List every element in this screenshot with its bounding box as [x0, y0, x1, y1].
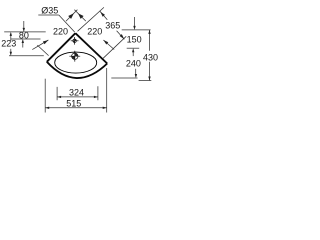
- arrow 515 right: [103, 107, 107, 109]
- svg-text:365: 365: [105, 20, 120, 30]
- basin back right edge: [75, 33, 107, 63]
- dim 240 lower arrow: [135, 69, 137, 77]
- drain symbol: [69, 51, 80, 62]
- dim 430 stem (broken by text): [149, 30, 151, 81]
- dim 80 upper arrow: [23, 21, 25, 30]
- dim line 515: [45, 107, 106, 109]
- ext line T to apex2: [78, 7, 104, 31]
- perp ext tick right: [103, 36, 126, 58]
- right ext line R2: [127, 47, 140, 49]
- left ext line L3: [9, 55, 44, 57]
- svg-text:220: 220: [87, 26, 102, 36]
- arrow 430 top: [148, 30, 150, 34]
- dim 150/240 shared arrow at R2: [132, 50, 134, 56]
- arrow 220L at apex: [68, 13, 74, 19]
- arrow 515 left: [45, 107, 49, 109]
- svg-text:223: 223: [1, 38, 16, 48]
- arrow 220R at apex: [78, 13, 84, 19]
- arrow 365 lower: [120, 34, 125, 39]
- dim 223 lower stem: [10, 49, 12, 54]
- dim 80 lower arrow: [22, 41, 24, 48]
- svg-text:80: 80: [19, 31, 29, 41]
- dim 150 upper arrow: [134, 17, 136, 28]
- bowl ellipse: [55, 52, 97, 73]
- svg-text:Ø35: Ø35: [41, 6, 58, 16]
- dim 365 : line segments: [100, 11, 125, 39]
- arrow 324 left: [57, 96, 61, 98]
- right ext line R1: [122, 29, 151, 31]
- dim line 324: [57, 96, 98, 98]
- perp ext tick left: [37, 45, 48, 56]
- arrow 365 upper: [100, 12, 105, 17]
- arrow 220L outer tip: [43, 40, 49, 44]
- faucet hole symbol: [71, 37, 79, 45]
- dim 220 right : line segments: [74, 10, 114, 50]
- O35 leader: [59, 15, 75, 32]
- left ext line L2: [11, 38, 41, 40]
- ext 515 left: [44, 79, 46, 113]
- dim 223 upper stem: [10, 33, 12, 41]
- svg-text:515: 515: [66, 99, 81, 109]
- ext 515 right: [106, 68, 108, 113]
- svg-text:240: 240: [126, 58, 141, 68]
- right ext line R3: [111, 77, 137, 79]
- svg-text:324: 324: [69, 88, 84, 98]
- ext 324 left: [56, 87, 58, 100]
- svg-text:220: 220: [53, 26, 68, 36]
- svg-text:150: 150: [127, 34, 142, 44]
- basin front arc: [47, 62, 107, 78]
- right ext line R4: [139, 80, 152, 82]
- left ext line L1: [4, 31, 46, 33]
- dim 220 left : line segments: [32, 10, 77, 50]
- ext 324 right: [97, 86, 99, 100]
- arrow 324 right: [94, 96, 98, 98]
- O35 underline: [38, 14, 59, 16]
- arrow 430 bottom: [148, 77, 150, 81]
- basin back left edge: [47, 33, 76, 62]
- svg-text:430: 430: [143, 53, 158, 63]
- arrow 220R outer tip: [103, 40, 108, 45]
